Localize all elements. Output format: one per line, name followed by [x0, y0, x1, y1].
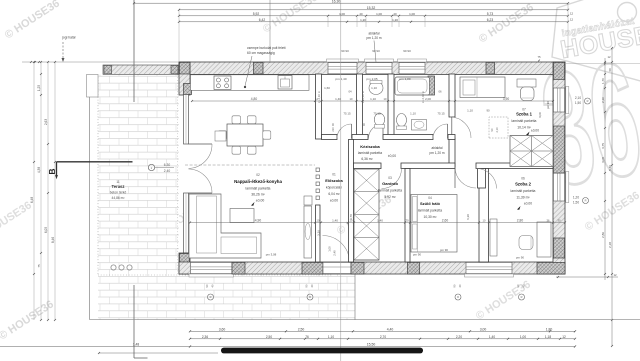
svg-text:Kéziszoba: Kéziszoba — [360, 144, 380, 149]
svg-text:6,23: 6,23 — [487, 18, 494, 22]
svg-text:3,75: 3,75 — [601, 143, 605, 149]
svg-text:11,39 m²: 11,39 m² — [516, 196, 530, 200]
svg-text:R: R — [309, 295, 311, 299]
interior wall mid horizontal east — [476, 163, 553, 169]
svg-text:4,38: 4,38 — [37, 167, 41, 173]
svg-text:3,70: 3,70 — [349, 214, 353, 220]
svg-text:6,20: 6,20 — [466, 214, 470, 220]
svg-text:44,86 m²: 44,86 m² — [111, 196, 125, 200]
svg-text:© HOUSE36: © HOUSE36 — [477, 1, 536, 45]
tv cabinet — [304, 196, 312, 205]
szoba2 desk — [537, 222, 551, 257]
dimension line top 4 — [179, 21, 568, 23]
svg-text:3,60: 3,60 — [219, 328, 226, 332]
svg-text:Nappali-étkező-konyha: Nappali-étkező-konyha — [234, 179, 282, 184]
szoba1 dashed niche — [489, 117, 508, 138]
svg-text:Szoba 1: Szoba 1 — [516, 112, 532, 117]
svg-text:6,30: 6,30 — [164, 163, 171, 167]
kitchen sink — [278, 76, 292, 90]
svg-text:76: 76 — [305, 335, 309, 339]
svg-text:2,86: 2,86 — [601, 232, 605, 238]
bathroom toilet — [397, 114, 407, 127]
window right wall 2 — [553, 173, 564, 201]
svg-text:2,10: 2,10 — [495, 127, 499, 133]
svg-text:16,30: 16,30 — [332, 0, 341, 4]
svg-text:±0,00: ±0,00 — [388, 154, 396, 158]
window top wall 3 — [399, 63, 425, 74]
dining table — [227, 124, 263, 146]
terrace outer edge right below building — [354, 274, 356, 320]
svg-text:6,05: 6,05 — [44, 227, 48, 233]
svg-text:36: 36 — [531, 29, 640, 221]
svg-text:1,48: 1,48 — [133, 342, 139, 346]
svg-text:90 90: 90 90 — [341, 49, 349, 53]
svg-text:1,10: 1,10 — [370, 97, 376, 101]
svg-text:© HOUSE36: © HOUSE36 — [3, 0, 62, 42]
interior wall duct bathroom — [428, 76, 435, 95]
svg-text:R: R — [457, 295, 459, 299]
svg-text:5,92: 5,92 — [253, 12, 260, 16]
svg-text:±0,00: ±0,00 — [330, 199, 338, 203]
svg-text:2,80: 2,80 — [517, 219, 524, 223]
szoba1 bed — [460, 77, 505, 98]
svg-text:5,73: 5,73 — [487, 12, 494, 16]
svg-text:1,50: 1,50 — [573, 201, 579, 205]
svg-text:Szülő háló: Szülő háló — [420, 201, 441, 206]
svg-text:10: 10 — [350, 97, 353, 101]
svg-text:1,80: 1,80 — [546, 328, 553, 332]
corner column top-left — [179, 62, 190, 74]
mid dim row — [190, 222, 565, 224]
dimension line top 1 — [134, 2, 568, 4]
svg-text:90 90: 90 90 — [372, 49, 380, 53]
svg-text:1,10: 1,10 — [467, 108, 473, 112]
svg-text:12: 12 — [613, 273, 617, 277]
extension line x270 — [269, 0, 271, 63]
svg-text:cs 2,40 m: cs 2,40 m — [421, 90, 425, 103]
dimension line top 2 — [179, 9, 568, 11]
svg-text:8,46: 8,46 — [51, 237, 55, 243]
side table — [215, 131, 226, 141]
svg-text:2,40: 2,40 — [164, 169, 171, 173]
site boundary line — [90, 319, 640, 321]
column right wall lower — [553, 238, 564, 258]
interior wall wc|bath — [357, 74, 363, 139]
left dimension column — [33, 62, 35, 320]
svg-text:75: 75 — [537, 55, 541, 59]
svg-text:jogi határ: jogi határ — [61, 36, 76, 40]
svg-text:laminált parketta: laminált parketta — [418, 209, 442, 213]
interior wall mid horizontal west — [354, 163, 382, 169]
terrace drain circles — [111, 265, 116, 270]
svg-text:cs 2,10 m: cs 2,10 m — [361, 90, 365, 103]
svg-text:2,10: 2,10 — [575, 96, 581, 100]
coffee table — [230, 209, 254, 223]
svg-text:90: 90 — [490, 128, 494, 131]
center section line — [340, 0, 342, 361]
svg-text:pm 90: pm 90 — [546, 101, 550, 109]
interior wall bathroom|szoba1 lower — [449, 138, 455, 167]
svg-text:4,40: 4,40 — [387, 328, 394, 332]
svg-text:2,20: 2,20 — [456, 335, 462, 339]
svg-text:12: 12 — [607, 55, 611, 59]
bottom dimension row 3 — [0, 346, 575, 348]
svg-text:R: R — [521, 295, 523, 299]
szoba2 cabinet — [490, 219, 497, 256]
svg-text:1,10: 1,10 — [410, 111, 416, 115]
exterior wall left lower corner — [179, 253, 190, 274]
kitchen counter — [191, 75, 310, 91]
svg-text:90: 90 — [453, 284, 457, 287]
szoba1 chair — [521, 87, 535, 101]
window wall left lower — [184, 193, 189, 253]
svg-text:±0,00: ±0,00 — [524, 202, 532, 206]
svg-text:5,92 m²: 5,92 m² — [384, 195, 396, 199]
wall stub between doors — [478, 169, 486, 189]
svg-text:R: R — [210, 295, 212, 299]
svg-text:laminált parketta: laminált parketta — [511, 189, 536, 193]
window bottom wall 1 — [191, 262, 233, 273]
svg-text:pm 1,20 m: pm 1,20 m — [429, 151, 444, 155]
szoba1 desk — [517, 79, 536, 87]
svg-text:1,40: 1,40 — [332, 219, 338, 223]
svg-text:laminált parketta: laminált parketta — [358, 151, 382, 155]
svg-text:10,14 m²: 10,14 m² — [517, 126, 531, 130]
door gardrob swing — [382, 169, 402, 189]
svg-text:20: 20 — [359, 12, 363, 16]
svg-text:beton térkő: beton térkő — [110, 191, 127, 195]
svg-text:3,08: 3,08 — [601, 157, 605, 163]
svg-text:10: 10 — [384, 97, 387, 101]
svg-text:pm 2,05: pm 2,05 — [366, 77, 377, 81]
svg-text:1,20: 1,20 — [573, 196, 579, 200]
szoba2 chair — [519, 236, 533, 250]
terrace outer edge left — [89, 75, 91, 320]
svg-text:02: 02 — [256, 173, 260, 177]
corner column top-right — [553, 62, 564, 79]
right dimension column — [604, 58, 606, 280]
entrance door opening — [323, 262, 351, 273]
svg-text:R: R — [587, 99, 589, 103]
svg-text:90: 90 — [486, 108, 490, 112]
column left wall — [184, 84, 192, 95]
svg-text:75 15: 75 15 — [343, 111, 351, 115]
svg-text:pm 90: pm 90 — [413, 253, 421, 257]
svg-text:laminált parketta: laminált parketta — [378, 189, 402, 193]
door szoba2 arc — [477, 169, 497, 189]
svg-text:laminált parketta: laminált parketta — [512, 119, 537, 123]
svg-text:75 15: 75 15 — [437, 111, 445, 115]
dimension line top 3 — [179, 15, 568, 17]
svg-text:6,04 m²: 6,04 m² — [328, 192, 340, 196]
terrace dotted boundary horizontal — [98, 274, 332, 276]
svg-text:04: 04 — [428, 196, 432, 200]
svg-text:1,70: 1,70 — [601, 78, 605, 84]
bottom auxiliary line — [99, 352, 218, 354]
svg-text:1,00: 1,00 — [376, 12, 382, 16]
svg-text:1,40: 1,40 — [335, 97, 341, 101]
svg-text:40: 40 — [458, 284, 462, 287]
svg-text:Gardrób: Gardrób — [382, 181, 398, 186]
svg-text:2,10: 2,10 — [601, 97, 605, 103]
interior wall bathroom|szoba1 upper — [449, 74, 455, 117]
bathroom bathtub — [395, 77, 430, 95]
svg-text:2,63: 2,63 — [44, 119, 48, 125]
svg-text:3,00: 3,00 — [538, 112, 542, 118]
svg-text:2,36: 2,36 — [202, 335, 208, 339]
svg-text:2,70: 2,70 — [380, 335, 386, 339]
window top wall 2 — [366, 63, 392, 74]
right bottom line — [556, 276, 618, 278]
svg-text:04: 04 — [348, 90, 352, 94]
terrace brick paving — [98, 75, 355, 320]
svg-text:R: R — [585, 199, 587, 203]
svg-text:laminált parketta: laminált parketta — [246, 187, 271, 191]
column bottom wall 1 — [232, 262, 245, 274]
exterior wall right — [553, 62, 565, 274]
svg-text:1,20: 1,20 — [392, 18, 398, 22]
svg-text:4,80: 4,80 — [251, 97, 258, 101]
interior post markers living|hall — [316, 168, 320, 172]
svg-text:75: 75 — [37, 264, 41, 268]
scale bar — [221, 348, 423, 354]
svg-text:60 cm magasságig: 60 cm magasságig — [247, 51, 275, 55]
interior wall hall|gardrob — [349, 140, 354, 263]
svg-text:06: 06 — [438, 90, 442, 94]
svg-text:01: 01 — [332, 173, 336, 177]
interior wall bath|bathroom — [388, 74, 394, 139]
svg-text:1,00: 1,00 — [328, 246, 332, 252]
bottom dimension row 1 — [190, 330, 575, 332]
svg-text:csempe burkolat pult felett: csempe burkolat pult felett — [247, 46, 286, 50]
svg-text:pm 3,08: pm 3,08 — [266, 253, 277, 257]
door bathroom swing — [433, 124, 448, 139]
svg-text:Szoba 2: Szoba 2 — [515, 182, 531, 187]
interior wall szulo|szoba2 — [479, 169, 489, 263]
szoba1 wardrobe — [510, 136, 553, 167]
column top wall 1 — [254, 62, 264, 74]
interior wall strip south — [322, 135, 338, 140]
svg-text:12: 12 — [570, 12, 574, 16]
svg-text:pm 1,40: pm 1,40 — [335, 77, 346, 81]
interior dim line upper — [192, 100, 553, 102]
svg-text:4,90: 4,90 — [255, 219, 262, 223]
interior wall mid horizontal center — [401, 163, 455, 169]
svg-text:ablakfal: ablakfal — [432, 146, 443, 150]
svg-text:3,00: 3,00 — [480, 328, 487, 332]
bath sink — [369, 82, 383, 95]
terrace level marker circle — [148, 164, 154, 170]
svg-text:6,42: 6,42 — [259, 18, 266, 22]
exterior wall left upper segment — [179, 62, 190, 95]
window extension lines — [327, 17, 329, 27]
svg-text:1,00: 1,00 — [339, 12, 345, 16]
svg-text:tr: tr — [151, 166, 153, 170]
svg-text:±0,00: ±0,00 — [531, 129, 539, 133]
svg-text:90 90: 90 90 — [403, 49, 411, 53]
szulo halo bed — [411, 195, 457, 253]
sofa L-shape — [189, 194, 261, 258]
svg-text:20: 20 — [393, 12, 397, 16]
svg-text:2,00: 2,00 — [425, 97, 431, 101]
svg-text:2,40: 2,40 — [333, 250, 337, 256]
living room dashed section line — [185, 164, 315, 166]
svg-text:1,10: 1,10 — [328, 335, 334, 339]
svg-text:8,46: 8,46 — [608, 165, 612, 171]
svg-text:60: 60 — [608, 68, 612, 72]
svg-text:6,36 m²: 6,36 m² — [361, 157, 373, 161]
terrace door leaf upper — [189, 143, 213, 145]
svg-text:70: 70 — [405, 219, 409, 223]
terrace dotted boundary vertical — [97, 75, 99, 276]
svg-text:2,18: 2,18 — [608, 242, 612, 248]
svg-text:6,48: 6,48 — [30, 197, 34, 203]
svg-text:15,50: 15,50 — [367, 343, 376, 347]
svg-text:75 15: 75 15 — [373, 111, 381, 115]
extension line building left — [178, 10, 180, 62]
kitchen stove — [214, 76, 231, 90]
svg-text:1,20: 1,20 — [360, 18, 366, 22]
svg-text:12: 12 — [570, 18, 574, 22]
window top wall 1 — [328, 63, 357, 74]
door szoba1 swing — [450, 117, 471, 138]
svg-text:1,50: 1,50 — [575, 101, 581, 105]
bath toilet — [374, 113, 384, 125]
svg-text:±0,00: ±0,00 — [256, 199, 265, 203]
bottom dimension row 2 — [190, 338, 575, 340]
corner column bottom-right — [537, 262, 565, 274]
svg-text:ablakfal: ablakfal — [369, 32, 380, 36]
svg-text:© HOUSE36: © HOUSE36 — [0, 199, 34, 243]
dining chairs — [232, 116, 241, 124]
exterior wall top — [179, 62, 565, 74]
window right wall 1 — [553, 88, 564, 112]
svg-text:2,50: 2,50 — [266, 335, 272, 339]
column right wall mid — [553, 126, 564, 173]
exterior wall bottom — [179, 262, 565, 274]
bathroom vanity sink — [412, 120, 427, 131]
svg-text:36,26 m²: 36,26 m² — [251, 193, 265, 197]
door szulo halo swing — [455, 167, 476, 188]
svg-text:1,00: 1,00 — [409, 12, 415, 16]
svg-text:1,10: 1,10 — [371, 86, 377, 90]
svg-text:15,32: 15,32 — [367, 6, 376, 10]
window bottom wall 2 — [466, 262, 512, 273]
svg-text:1,40: 1,40 — [489, 335, 495, 339]
interior wall living|hall lower — [316, 205, 321, 262]
svg-text:2,50: 2,50 — [298, 328, 305, 332]
entrance door leaf and swing — [349, 235, 351, 261]
svg-text:Terasz: Terasz — [112, 184, 125, 189]
svg-text:1,25: 1,25 — [37, 85, 41, 91]
svg-text:03: 03 — [388, 176, 392, 180]
garden wall pillar right — [171, 65, 178, 74]
extension line building right top — [567, 3, 569, 58]
svg-text:1,00: 1,00 — [520, 335, 526, 339]
top-left baseline — [22, 61, 179, 63]
svg-text:pm 90: pm 90 — [516, 256, 524, 260]
interior wall living|bath-strip — [316, 74, 322, 139]
svg-text:3,26: 3,26 — [317, 230, 321, 236]
svg-text:06: 06 — [521, 177, 525, 181]
gardrob wardrobe — [354, 169, 379, 260]
terrace door leaf lower — [189, 192, 213, 194]
garden wall west — [103, 65, 179, 74]
column bottom wall 3 — [351, 262, 364, 274]
window wall left upper — [184, 95, 189, 145]
svg-text:pm 1,20 m: pm 1,20 m — [366, 36, 381, 40]
svg-text:köporcelán: köporcelán — [326, 186, 342, 190]
gate pillar — [87, 75, 99, 98]
svg-text:1,60: 1,60 — [324, 86, 330, 90]
svg-text:3,90: 3,90 — [503, 97, 510, 101]
svg-text:1,40: 1,40 — [377, 219, 383, 223]
svg-text:2,60: 2,60 — [442, 219, 449, 223]
door wc1 swing — [337, 124, 352, 139]
column bottom wall 2 — [302, 262, 323, 274]
svg-text:pm 1,80: pm 1,80 — [399, 77, 410, 81]
svg-text:pm 90: pm 90 — [440, 248, 448, 252]
roof overhang dotted line left of building — [177, 75, 179, 275]
svg-text:B: B — [47, 168, 57, 174]
column top wall 2 — [486, 62, 495, 74]
svg-text:1,18: 1,18 — [545, 335, 551, 339]
property line top — [133, 0, 135, 102]
svg-text:12: 12 — [562, 335, 566, 339]
svg-text:cs 2,10 m: cs 2,10 m — [317, 90, 321, 103]
property line bottom — [133, 285, 135, 358]
column bottom wall 4 — [408, 262, 420, 274]
interior wall gardrob|szulo — [405, 169, 410, 263]
svg-text:10,30 m²: 10,30 m² — [423, 215, 437, 219]
svg-text:90: 90 — [331, 123, 335, 126]
HOUSE36 logo — [552, 0, 640, 86]
svg-text:210: 210 — [331, 127, 335, 132]
door bath swing — [369, 124, 384, 139]
garden wall pillar left — [104, 65, 112, 74]
